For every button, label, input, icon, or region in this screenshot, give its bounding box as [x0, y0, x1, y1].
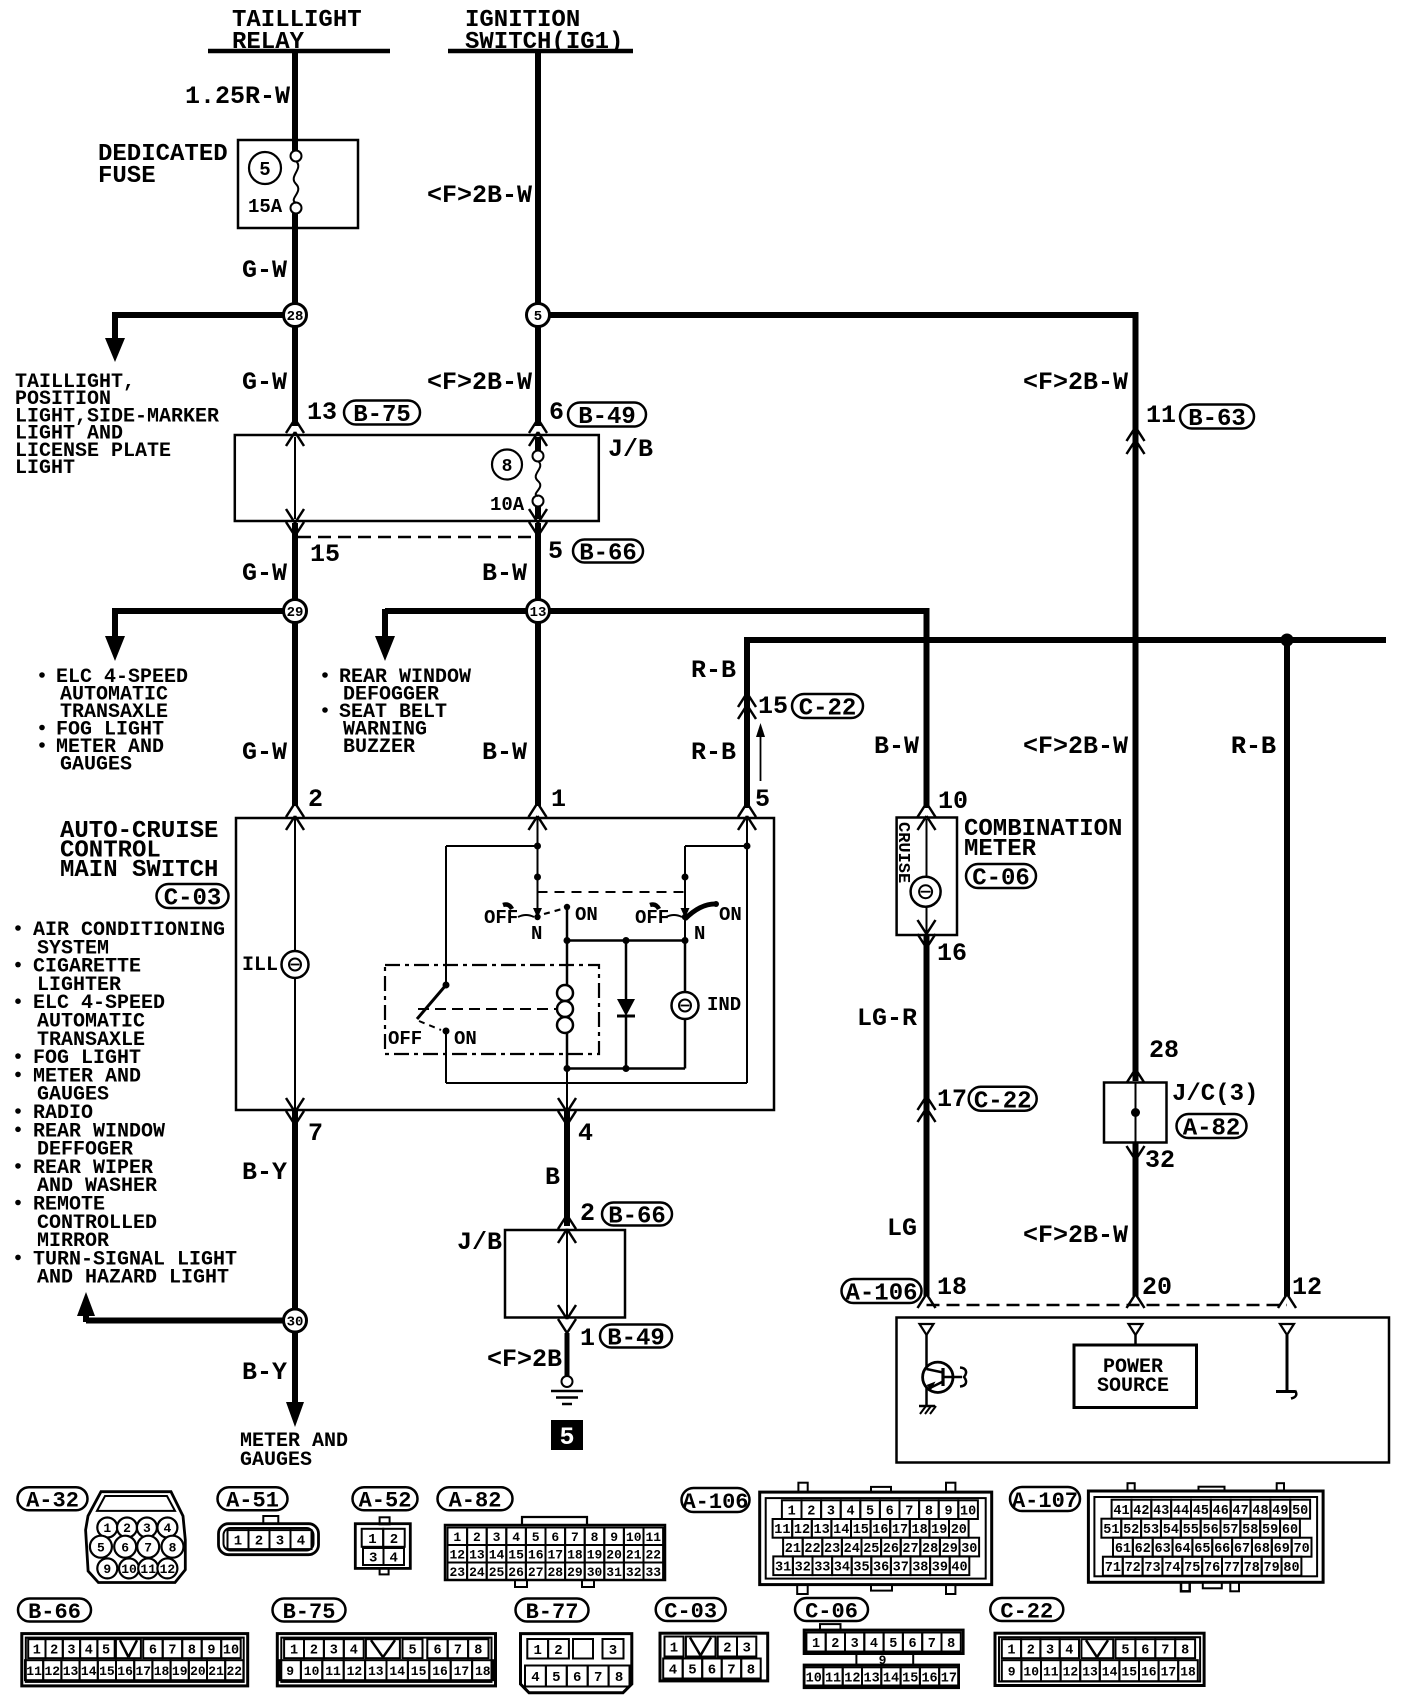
svg-text:5: 5 [552, 1670, 560, 1686]
svg-text:33: 33 [645, 1565, 661, 1580]
svg-text:67: 67 [1234, 1542, 1250, 1557]
svg-text:11: 11 [325, 1664, 341, 1679]
svg-text:2: 2 [473, 1530, 481, 1545]
svg-text:21: 21 [785, 1542, 801, 1557]
svg-text:OFF: OFF [388, 1028, 422, 1050]
svg-text:6: 6 [908, 1637, 916, 1652]
svg-text:7: 7 [571, 1530, 579, 1545]
svg-text:71: 71 [1105, 1561, 1121, 1576]
svg-text:20: 20 [951, 1523, 967, 1538]
svg-text:2: 2 [723, 1641, 731, 1657]
svg-text:59: 59 [1262, 1523, 1278, 1538]
svg-text:4: 4 [85, 1644, 93, 1659]
svg-text:C-03: C-03 [164, 886, 222, 913]
svg-text:1: 1 [368, 1532, 376, 1548]
svg-text:B-W: B-W [482, 559, 527, 588]
svg-text:5: 5 [559, 1423, 574, 1452]
svg-text:62: 62 [1135, 1542, 1151, 1557]
svg-text:B-77: B-77 [526, 1600, 579, 1625]
svg-text:34: 34 [834, 1561, 850, 1576]
svg-text:12: 12 [794, 1523, 810, 1538]
svg-text:A-106: A-106 [682, 1490, 748, 1515]
svg-text:40: 40 [951, 1561, 967, 1576]
svg-text:1: 1 [670, 1641, 678, 1657]
svg-text:6: 6 [1141, 1644, 1149, 1659]
svg-text:64: 64 [1174, 1542, 1190, 1557]
svg-text:7: 7 [594, 1670, 602, 1686]
svg-text:15A: 15A [248, 196, 283, 218]
svg-text:70: 70 [1293, 1542, 1309, 1557]
svg-text:6: 6 [121, 1540, 129, 1555]
svg-text:B-63: B-63 [1188, 406, 1246, 433]
svg-text:10: 10 [121, 1562, 137, 1577]
svg-text:6: 6 [886, 1505, 894, 1520]
svg-text:10: 10 [806, 1671, 822, 1686]
svg-text:32: 32 [626, 1565, 642, 1580]
svg-text:45: 45 [1193, 1504, 1209, 1519]
svg-text:3: 3 [851, 1637, 859, 1652]
svg-text:27: 27 [528, 1565, 544, 1580]
svg-text:7: 7 [168, 1644, 176, 1659]
svg-text:28: 28 [922, 1542, 938, 1557]
svg-text:15: 15 [99, 1664, 115, 1679]
svg-text:10: 10 [223, 1644, 239, 1659]
svg-text:3: 3 [1046, 1644, 1054, 1659]
svg-text:31: 31 [606, 1565, 622, 1580]
svg-text:13: 13 [530, 605, 547, 621]
svg-text:21: 21 [626, 1547, 642, 1562]
svg-text:16: 16 [1141, 1664, 1157, 1679]
svg-text:B-Y: B-Y [242, 1358, 287, 1387]
svg-text:43: 43 [1153, 1504, 1169, 1519]
svg-text:OFF: OFF [484, 907, 518, 929]
svg-text:2: 2 [1027, 1644, 1035, 1659]
svg-text:C-22: C-22 [799, 696, 857, 723]
svg-text:1: 1 [812, 1637, 820, 1652]
svg-text:3: 3 [493, 1530, 501, 1545]
svg-text:38: 38 [912, 1561, 928, 1576]
svg-text:12: 12 [449, 1547, 465, 1562]
svg-text:54: 54 [1163, 1523, 1179, 1538]
svg-text:11: 11 [1146, 401, 1176, 430]
svg-text:5: 5 [889, 1637, 897, 1652]
svg-text:60: 60 [1282, 1523, 1298, 1538]
svg-text:63: 63 [1155, 1542, 1171, 1557]
svg-text:MAIN SWITCH: MAIN SWITCH [60, 857, 218, 884]
svg-text:9: 9 [286, 1664, 294, 1679]
svg-text:22: 22 [804, 1542, 820, 1557]
svg-text:15: 15 [853, 1523, 869, 1538]
svg-text:23: 23 [824, 1542, 840, 1557]
svg-text:28: 28 [287, 309, 304, 325]
svg-text:37: 37 [893, 1561, 909, 1576]
svg-text:<F>2B-W: <F>2B-W [427, 181, 532, 210]
svg-text:5: 5 [755, 785, 770, 814]
svg-text:14: 14 [81, 1664, 97, 1679]
svg-text:2: 2 [308, 785, 323, 814]
svg-text:4: 4 [846, 1505, 854, 1520]
svg-text:A-107: A-107 [1012, 1489, 1078, 1514]
svg-text:26: 26 [883, 1542, 899, 1557]
svg-text:16: 16 [432, 1664, 448, 1679]
svg-text:1: 1 [103, 1521, 111, 1536]
svg-text:78: 78 [1244, 1561, 1260, 1576]
svg-text:29: 29 [287, 605, 304, 621]
svg-text:A-82: A-82 [1183, 1116, 1241, 1143]
svg-text:7: 7 [1161, 1644, 1169, 1659]
svg-text:11: 11 [140, 1562, 156, 1577]
svg-text:77: 77 [1224, 1561, 1240, 1576]
svg-text:11: 11 [26, 1664, 42, 1679]
svg-text:55: 55 [1183, 1523, 1199, 1538]
svg-text:3: 3 [276, 1534, 284, 1550]
svg-text:17: 17 [1161, 1664, 1177, 1679]
svg-text:5: 5 [408, 1644, 416, 1659]
svg-text:13: 13 [469, 1547, 485, 1562]
svg-text:LG-R: LG-R [857, 1004, 917, 1033]
svg-text:12: 12 [844, 1671, 860, 1686]
svg-text:66: 66 [1214, 1542, 1230, 1557]
svg-text:8: 8 [925, 1505, 933, 1520]
svg-text:9: 9 [944, 1505, 952, 1520]
svg-text:2: 2 [50, 1644, 58, 1659]
svg-text:24: 24 [469, 1565, 485, 1580]
svg-text:11: 11 [645, 1530, 661, 1545]
svg-text:CRUISE: CRUISE [893, 822, 912, 883]
svg-text:11: 11 [825, 1671, 841, 1686]
svg-text:4: 4 [578, 1119, 593, 1148]
svg-text:50: 50 [1292, 1504, 1308, 1519]
svg-text:J/C(3): J/C(3) [1172, 1081, 1258, 1108]
svg-text:METER: METER [964, 836, 1037, 863]
svg-text:R-B: R-B [691, 738, 736, 767]
svg-text:20: 20 [190, 1664, 206, 1679]
svg-text:22: 22 [645, 1547, 661, 1562]
svg-text:5: 5 [259, 159, 270, 181]
svg-text:G-W: G-W [242, 559, 287, 588]
svg-text:4: 4 [531, 1670, 539, 1686]
svg-text:5: 5 [688, 1663, 696, 1679]
svg-text:ON: ON [575, 904, 598, 926]
svg-text:74: 74 [1164, 1561, 1180, 1576]
svg-text:C-06: C-06 [805, 1599, 858, 1624]
svg-text:6: 6 [708, 1663, 716, 1679]
svg-text:19: 19 [172, 1664, 188, 1679]
svg-text:15: 15 [508, 1547, 524, 1562]
svg-text:7: 7 [144, 1540, 152, 1555]
svg-text:73: 73 [1144, 1561, 1160, 1576]
svg-text:41: 41 [1113, 1504, 1129, 1519]
svg-text:1: 1 [234, 1534, 242, 1550]
svg-text:53: 53 [1143, 1523, 1159, 1538]
svg-text:51: 51 [1103, 1523, 1119, 1538]
svg-text:13: 13 [864, 1671, 880, 1686]
svg-text:3: 3 [143, 1521, 151, 1536]
svg-text:25: 25 [863, 1542, 879, 1557]
svg-text:B: B [545, 1163, 560, 1192]
svg-text:<F>2B-W: <F>2B-W [1023, 368, 1128, 397]
svg-text:1: 1 [33, 1644, 41, 1659]
svg-text:A-51: A-51 [226, 1489, 279, 1514]
svg-text:9: 9 [207, 1644, 215, 1659]
svg-text:2: 2 [390, 1532, 398, 1548]
svg-text:30: 30 [961, 1542, 977, 1557]
svg-text:12: 12 [44, 1664, 60, 1679]
svg-text:6: 6 [549, 398, 564, 427]
svg-text:C-06: C-06 [972, 866, 1030, 893]
svg-text:17: 17 [941, 1671, 957, 1686]
svg-text:LIGHT: LIGHT [15, 457, 75, 480]
svg-text:3: 3 [827, 1505, 835, 1520]
svg-text:27: 27 [902, 1542, 918, 1557]
svg-text:12: 12 [160, 1562, 176, 1577]
svg-text:13: 13 [368, 1664, 384, 1679]
svg-text:20: 20 [606, 1547, 622, 1562]
svg-text:28: 28 [1149, 1036, 1179, 1065]
svg-text:5: 5 [97, 1540, 105, 1555]
svg-text:19: 19 [587, 1547, 603, 1562]
svg-text:32: 32 [1145, 1146, 1175, 1175]
svg-text:ON: ON [719, 904, 742, 926]
svg-text:6: 6 [573, 1670, 581, 1686]
svg-text:G-W: G-W [242, 256, 287, 285]
svg-text:76: 76 [1204, 1561, 1220, 1576]
svg-text:B-W: B-W [482, 738, 527, 767]
svg-text:4: 4 [1065, 1644, 1073, 1659]
svg-text:B-49: B-49 [578, 404, 636, 431]
svg-text:2: 2 [554, 1643, 562, 1659]
svg-text:4: 4 [297, 1534, 305, 1550]
svg-text:5: 5 [1121, 1644, 1129, 1659]
svg-text:23: 23 [449, 1565, 465, 1580]
svg-text:69: 69 [1274, 1542, 1290, 1557]
svg-text:13: 13 [813, 1523, 829, 1538]
svg-text:42: 42 [1133, 1504, 1149, 1519]
svg-text:GAUGES: GAUGES [240, 1449, 312, 1472]
svg-text:36: 36 [873, 1561, 889, 1576]
svg-text:13: 13 [307, 398, 337, 427]
svg-text:44: 44 [1173, 1504, 1189, 1519]
svg-text:1: 1 [788, 1505, 796, 1520]
svg-text:9: 9 [103, 1562, 111, 1577]
svg-text:G-W: G-W [242, 368, 287, 397]
svg-text:B-W: B-W [874, 732, 919, 761]
svg-text:11: 11 [1043, 1664, 1059, 1679]
svg-text:B-49: B-49 [607, 1326, 665, 1353]
svg-text:A-82: A-82 [449, 1489, 502, 1514]
svg-text:15: 15 [758, 692, 788, 721]
svg-text:16: 16 [528, 1547, 544, 1562]
svg-text:17: 17 [454, 1664, 470, 1679]
svg-text:18: 18 [937, 1273, 967, 1302]
svg-text:20: 20 [1142, 1273, 1172, 1302]
svg-text:<F>2B-W: <F>2B-W [427, 368, 532, 397]
svg-text:C-22: C-22 [974, 1088, 1032, 1115]
svg-text:12: 12 [347, 1664, 363, 1679]
svg-text:9: 9 [1008, 1664, 1016, 1679]
svg-text:5: 5 [102, 1644, 110, 1659]
svg-text:4: 4 [163, 1521, 171, 1536]
svg-text:16: 16 [117, 1664, 133, 1679]
svg-text:A-106: A-106 [845, 1281, 917, 1308]
svg-text:1: 1 [551, 785, 566, 814]
svg-text:8: 8 [188, 1644, 196, 1659]
svg-text:3: 3 [67, 1644, 75, 1659]
svg-text:SOURCE: SOURCE [1097, 1375, 1169, 1398]
svg-text:8: 8 [615, 1670, 623, 1686]
svg-text:21: 21 [208, 1664, 224, 1679]
svg-text:48: 48 [1252, 1504, 1268, 1519]
svg-text:22: 22 [226, 1664, 242, 1679]
svg-text:15: 15 [411, 1664, 427, 1679]
svg-text:18: 18 [911, 1523, 927, 1538]
svg-text:<F>2B-W: <F>2B-W [1023, 1221, 1128, 1250]
svg-text:35: 35 [853, 1561, 869, 1576]
svg-text:18: 18 [154, 1664, 170, 1679]
svg-text:4: 4 [512, 1530, 520, 1545]
svg-text:56: 56 [1202, 1523, 1218, 1538]
svg-text:29: 29 [567, 1565, 583, 1580]
svg-text:B-66: B-66 [608, 1204, 666, 1231]
svg-text:68: 68 [1254, 1542, 1270, 1557]
svg-text:17: 17 [547, 1547, 563, 1562]
svg-text:C-03: C-03 [664, 1599, 717, 1624]
svg-text:15: 15 [1121, 1664, 1137, 1679]
svg-text:AND HAZARD LIGHT: AND HAZARD LIGHT [37, 1267, 229, 1290]
svg-text:3: 3 [609, 1643, 617, 1659]
svg-text:IND: IND [707, 994, 741, 1016]
svg-text:7: 7 [308, 1119, 323, 1148]
svg-text:R-B: R-B [691, 656, 736, 685]
svg-text:B-66: B-66 [579, 541, 637, 568]
svg-text:B-75: B-75 [353, 402, 411, 429]
svg-text:A-32: A-32 [26, 1489, 79, 1514]
svg-text:10A: 10A [490, 494, 525, 516]
svg-text:25: 25 [489, 1565, 505, 1580]
svg-text:N: N [694, 923, 705, 945]
svg-text:31: 31 [775, 1561, 791, 1576]
svg-text:8: 8 [747, 1663, 755, 1679]
svg-text:49: 49 [1272, 1504, 1288, 1519]
svg-text:B-Y: B-Y [242, 1158, 287, 1187]
svg-text:13: 13 [63, 1664, 79, 1679]
svg-text:1.25R-W: 1.25R-W [185, 82, 290, 111]
svg-text:14: 14 [1102, 1664, 1118, 1679]
svg-text:A-52: A-52 [359, 1489, 412, 1514]
svg-text:1: 1 [453, 1530, 461, 1545]
svg-text:2: 2 [123, 1521, 131, 1536]
svg-text:10: 10 [1023, 1664, 1039, 1679]
svg-text:6: 6 [149, 1644, 157, 1659]
svg-text:5: 5 [548, 537, 563, 566]
svg-text:LG: LG [887, 1214, 917, 1243]
svg-text:29: 29 [942, 1542, 958, 1557]
svg-text:G-W: G-W [242, 738, 287, 767]
svg-text:18: 18 [567, 1547, 583, 1562]
svg-text:1: 1 [1007, 1644, 1015, 1659]
svg-text:16: 16 [872, 1523, 888, 1538]
svg-text:C-22: C-22 [1000, 1599, 1053, 1624]
svg-text:33: 33 [814, 1561, 830, 1576]
svg-text:J/B: J/B [608, 435, 653, 464]
svg-text:14: 14 [389, 1664, 405, 1679]
svg-text:17: 17 [937, 1085, 967, 1114]
svg-text:75: 75 [1184, 1561, 1200, 1576]
svg-text:14: 14 [489, 1547, 505, 1562]
svg-text:<F>2B: <F>2B [487, 1345, 562, 1374]
svg-text:4: 4 [669, 1663, 677, 1679]
svg-text:61: 61 [1115, 1542, 1131, 1557]
svg-text:6: 6 [551, 1530, 559, 1545]
svg-text:7: 7 [454, 1644, 462, 1659]
svg-text:2: 2 [255, 1534, 263, 1550]
svg-text:2: 2 [310, 1644, 318, 1659]
svg-text:2: 2 [807, 1505, 815, 1520]
svg-text:12: 12 [1063, 1664, 1079, 1679]
svg-text:GAUGES: GAUGES [60, 754, 132, 777]
svg-text:80: 80 [1283, 1561, 1299, 1576]
svg-text:3: 3 [742, 1641, 750, 1657]
svg-text:1: 1 [290, 1644, 298, 1659]
svg-text:58: 58 [1242, 1523, 1258, 1538]
svg-text:8: 8 [502, 457, 513, 477]
svg-text:18: 18 [475, 1664, 491, 1679]
svg-text:J/B: J/B [457, 1228, 502, 1257]
svg-text:4: 4 [350, 1644, 358, 1659]
svg-text:4: 4 [390, 1551, 398, 1567]
svg-text:47: 47 [1233, 1504, 1249, 1519]
svg-text:2: 2 [831, 1637, 839, 1652]
svg-text:15: 15 [902, 1671, 918, 1686]
svg-text:52: 52 [1123, 1523, 1139, 1538]
svg-text:19: 19 [931, 1523, 947, 1538]
svg-text:1: 1 [580, 1324, 595, 1353]
svg-text:18: 18 [1180, 1664, 1196, 1679]
svg-text:5: 5 [866, 1505, 874, 1520]
svg-text:ON: ON [454, 1028, 477, 1050]
svg-text:8: 8 [1181, 1644, 1189, 1659]
svg-text:10: 10 [626, 1530, 642, 1545]
svg-text:17: 17 [892, 1523, 908, 1538]
svg-text:R-B: R-B [1231, 732, 1276, 761]
svg-text:8: 8 [169, 1540, 177, 1555]
svg-text:14: 14 [883, 1671, 899, 1686]
svg-text:8: 8 [474, 1644, 482, 1659]
svg-text:9: 9 [610, 1530, 618, 1545]
svg-text:8: 8 [947, 1637, 955, 1652]
svg-text:4: 4 [870, 1637, 878, 1652]
svg-text:B-66: B-66 [28, 1600, 81, 1625]
svg-text:7: 7 [727, 1663, 735, 1679]
svg-text:N: N [531, 923, 542, 945]
svg-text:3: 3 [330, 1644, 338, 1659]
svg-text:65: 65 [1194, 1542, 1210, 1557]
svg-text:2: 2 [580, 1199, 595, 1228]
svg-text:ILL: ILL [242, 954, 278, 977]
svg-text:10: 10 [304, 1664, 320, 1679]
svg-text:1: 1 [533, 1643, 541, 1659]
svg-text:7: 7 [928, 1637, 936, 1652]
svg-text:72: 72 [1125, 1561, 1141, 1576]
svg-text:11: 11 [774, 1523, 790, 1538]
svg-text:13: 13 [1082, 1664, 1098, 1679]
svg-text:BUZZER: BUZZER [343, 736, 415, 759]
svg-text:6: 6 [433, 1644, 441, 1659]
svg-text:12: 12 [1292, 1273, 1322, 1302]
svg-text:32: 32 [795, 1561, 811, 1576]
svg-text:FUSE: FUSE [98, 163, 156, 190]
svg-text:57: 57 [1222, 1523, 1238, 1538]
